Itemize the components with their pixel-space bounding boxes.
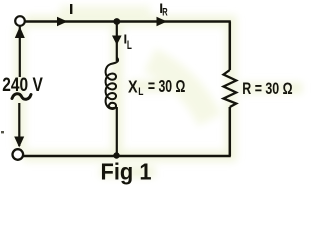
arrow I_R on top wire — [157, 17, 168, 26]
arrow up at source top — [15, 27, 25, 39]
label I — [70, 4, 72, 14]
svg-text:L: L — [138, 86, 143, 98]
source bottom terminal — [12, 149, 23, 160]
arrow down at source bottom — [14, 137, 24, 148]
wire: middle branch lower — [116, 107, 118, 156]
arrow I_L — [112, 36, 122, 46]
svg-text:240 V: 240 V — [2, 75, 43, 96]
junction node bottom — [113, 152, 119, 158]
svg-text:R = 30 Ω: R = 30 Ω — [242, 79, 292, 98]
wire: right vertical upper — [229, 22, 232, 71]
wire: right vertical lower — [229, 107, 232, 156]
inductor X_L coil — [106, 58, 118, 110]
resistor R zigzag — [224, 70, 237, 107]
source tilde — [12, 94, 31, 100]
source top terminal — [15, 16, 25, 26]
wire: left branch upper segment — [19, 27, 21, 78]
svg-text:X: X — [128, 76, 138, 96]
junction node top — [113, 18, 120, 25]
svg-text:L: L — [127, 38, 132, 52]
arrow I on top wire — [57, 17, 68, 26]
wire: middle branch upper — [116, 22, 118, 62]
wire: left branch lower segment — [18, 103, 20, 146]
svg-text:R: R — [162, 6, 167, 18]
wire: bottom horizontal — [24, 155, 231, 158]
svg-text:Fig 1: Fig 1 — [101, 159, 152, 185]
wire: top horizontal from source to right branch — [25, 20, 231, 23]
svg-text:= 30 Ω: = 30 Ω — [148, 76, 186, 96]
